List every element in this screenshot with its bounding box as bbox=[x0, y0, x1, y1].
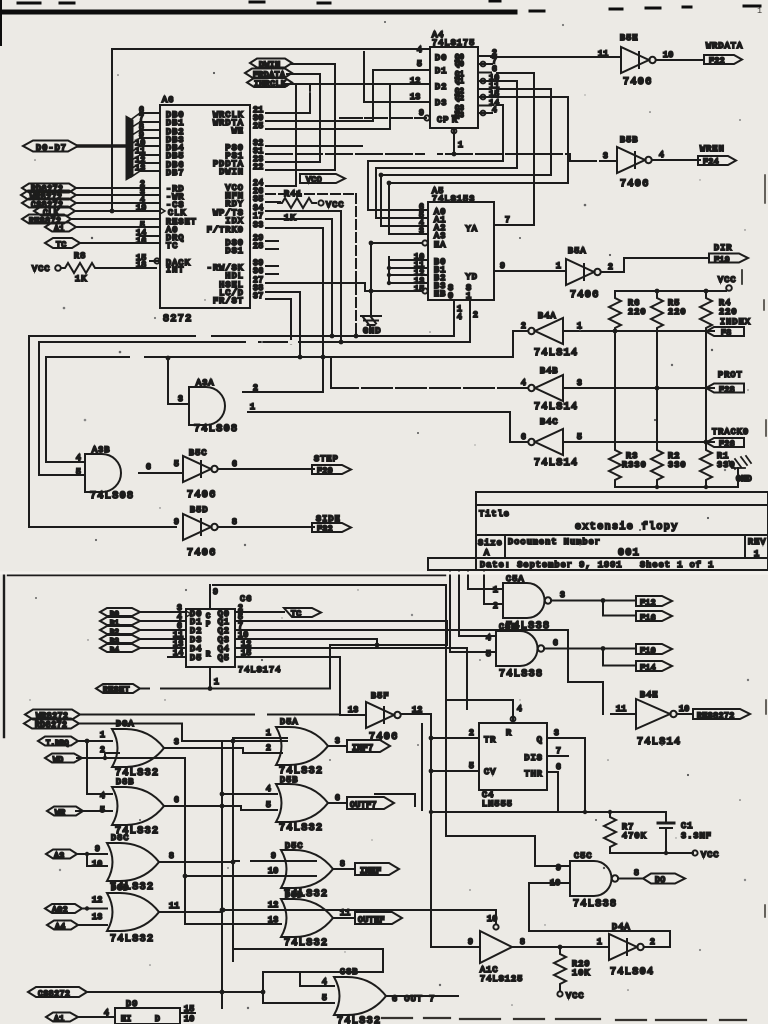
svg-text:VCC: VCC bbox=[566, 991, 585, 1001]
svg-text:Size: Size bbox=[478, 538, 503, 548]
svg-text:3: 3 bbox=[174, 738, 179, 747]
svg-text:B5D: B5D bbox=[190, 505, 209, 515]
VCC rail bottom bbox=[610, 852, 693, 853]
svg-text:10: 10 bbox=[92, 860, 103, 869]
svg-text:EI: EI bbox=[121, 1015, 132, 1024]
svg-text:DB7: DB7 bbox=[166, 168, 185, 178]
AND gate A3B bbox=[85, 445, 134, 502]
OR gate D8C 74LS32 bbox=[107, 833, 159, 893]
OR gate D8B 74LS32 bbox=[112, 777, 164, 837]
wire A1 to D9 bbox=[78, 1016, 115, 1018]
svg-text:9: 9 bbox=[174, 518, 179, 527]
wire C5C out to DO bbox=[618, 878, 643, 880]
svg-text:B4A: B4A bbox=[538, 311, 557, 321]
svg-text:3: 3 bbox=[560, 591, 565, 600]
svg-text:TR: TR bbox=[484, 735, 496, 745]
svg-text:5: 5 bbox=[469, 762, 474, 771]
svg-text:25: 25 bbox=[253, 122, 264, 131]
connector FRDATA bbox=[245, 69, 292, 81]
svg-text:1: 1 bbox=[100, 731, 105, 740]
svg-text:74LS08: 74LS08 bbox=[194, 424, 238, 435]
svg-text:28: 28 bbox=[253, 242, 264, 251]
IC C6 74LS174 bbox=[186, 594, 281, 675]
page2 frame border bbox=[4, 575, 445, 737]
svg-text:1: 1 bbox=[250, 403, 255, 412]
svg-text:9: 9 bbox=[468, 938, 473, 947]
A4 right pin stubs and numbers bbox=[478, 49, 500, 115]
long wires right side of A6 bbox=[266, 186, 358, 392]
svg-text:INEF: INEF bbox=[360, 867, 382, 876]
svg-text:1: 1 bbox=[757, 6, 763, 16]
wire B5E out to F22 bbox=[656, 59, 704, 61]
wire B5B out to F24 bbox=[652, 159, 700, 161]
connector A4 bbox=[47, 921, 78, 933]
svg-text:YA: YA bbox=[466, 224, 478, 234]
svg-text:470K: 470K bbox=[622, 831, 647, 841]
connector A3 bbox=[46, 850, 77, 862]
svg-text:R8: R8 bbox=[74, 251, 86, 261]
svg-text:F12: F12 bbox=[640, 599, 656, 608]
svg-text:A4: A4 bbox=[55, 923, 66, 932]
connector TC.DRQ bbox=[38, 737, 78, 749]
wire DWIN arrow to pin22 bbox=[266, 64, 335, 170]
pullup rail VCC bbox=[615, 290, 726, 292]
svg-text:4: 4 bbox=[492, 106, 497, 115]
svg-text:D: D bbox=[155, 1015, 160, 1024]
svg-text:EA: EA bbox=[434, 240, 446, 250]
svg-text:DIS: DIS bbox=[524, 753, 543, 763]
C6 pin numbers bbox=[173, 604, 252, 658]
svg-text:1: 1 bbox=[597, 938, 602, 947]
wire A4 D3 bbox=[364, 52, 430, 102]
svg-text:001: 001 bbox=[618, 548, 640, 559]
svg-text:D9: D9 bbox=[126, 999, 138, 1009]
connector VCO flag bbox=[300, 174, 345, 185]
svg-text:F14: F14 bbox=[640, 664, 656, 673]
svg-text:3: 3 bbox=[178, 395, 183, 404]
svg-text:74LS32: 74LS32 bbox=[110, 934, 154, 945]
svg-text:22: 22 bbox=[253, 163, 264, 172]
connector A1 bottom bbox=[46, 1013, 78, 1024]
wire D8C out bbox=[159, 861, 233, 863]
svg-text:D8B: D8B bbox=[116, 777, 135, 787]
svg-text:6: 6 bbox=[553, 639, 558, 648]
B4C output wire bbox=[248, 412, 528, 442]
mid verticals page2 bbox=[222, 724, 422, 1008]
wire TR bbox=[431, 737, 479, 739]
page 2 scan edge bottom dashes bbox=[382, 1018, 746, 1020]
svg-text:6: 6 bbox=[146, 463, 151, 472]
resistor R1 330 bbox=[700, 445, 736, 485]
svg-text:RESET: RESET bbox=[103, 686, 130, 695]
svg-text:10: 10 bbox=[268, 867, 279, 876]
svg-text:Q̅2: Q̅2 bbox=[454, 94, 464, 103]
wire B4E out to RES8272 bbox=[677, 713, 693, 715]
svg-text:Document Number: Document Number bbox=[508, 537, 601, 547]
svg-text:16: 16 bbox=[136, 237, 147, 246]
svg-text:A6: A6 bbox=[162, 95, 174, 105]
svg-text:F19: F19 bbox=[714, 256, 730, 265]
svg-text:7406: 7406 bbox=[187, 548, 217, 559]
svg-text:7406: 7406 bbox=[187, 490, 217, 501]
svg-text:4: 4 bbox=[76, 454, 81, 463]
wire A4 CP bbox=[340, 117, 426, 119]
wire CV bbox=[431, 770, 479, 772]
wire D5A.1 feed bbox=[233, 738, 287, 961]
wire B5D out to F32 bbox=[218, 526, 314, 528]
A5 bottom pins bbox=[454, 300, 478, 342]
svg-text:F16: F16 bbox=[640, 614, 656, 623]
svg-text:5: 5 bbox=[100, 806, 105, 815]
wire into B4E bbox=[611, 713, 636, 715]
VCC node right bbox=[718, 270, 742, 291]
svg-text:2: 2 bbox=[469, 729, 474, 738]
connector F14 bbox=[636, 661, 672, 673]
svg-text:2: 2 bbox=[608, 263, 613, 272]
svg-text:D8A: D8A bbox=[116, 719, 135, 729]
wire D5C.9 feed bbox=[185, 861, 316, 876]
svg-text:4: 4 bbox=[457, 313, 462, 322]
svg-text:DS1: DS1 bbox=[225, 246, 244, 256]
wire FRDATA to PDDTA bbox=[266, 74, 320, 162]
svg-text:330: 330 bbox=[668, 460, 687, 470]
svg-text:T.DRQ: T.DRQ bbox=[46, 740, 69, 748]
svg-text:VCC: VCC bbox=[326, 200, 345, 210]
B4B input wire PROT line bbox=[563, 387, 714, 389]
svg-text:1: 1 bbox=[493, 586, 498, 595]
wire DRQ bbox=[140, 235, 160, 237]
svg-text:WREN: WREN bbox=[700, 144, 725, 154]
wire THR bbox=[547, 772, 558, 812]
svg-text:9: 9 bbox=[500, 262, 505, 271]
connector F22 WRDATA bbox=[704, 41, 743, 66]
fax dropout patches bbox=[96, 151, 437, 863]
pin numbers left of A6 bbox=[135, 106, 147, 270]
svg-text:F20: F20 bbox=[317, 467, 333, 476]
IC A5 74LS153 bbox=[422, 186, 494, 301]
nested wires left bundle bbox=[368, 161, 568, 234]
OR gate D5C 74LS32 bbox=[281, 841, 333, 900]
C5A input risers bbox=[468, 570, 503, 604]
DACK bubble bbox=[154, 258, 159, 263]
OR gate D8A 74LS32 bbox=[112, 719, 164, 779]
svg-text:15: 15 bbox=[184, 1005, 195, 1014]
buffer A1C 74LS125 bbox=[480, 910, 523, 984]
svg-text:13: 13 bbox=[348, 706, 359, 715]
svg-text:Title: Title bbox=[479, 509, 510, 519]
capacitor C1 3.3MF bbox=[658, 812, 712, 853]
svg-text:3: 3 bbox=[419, 227, 424, 236]
svg-text:F32: F32 bbox=[317, 525, 333, 534]
svg-text:7: 7 bbox=[505, 216, 510, 225]
svg-text:D8D: D8D bbox=[111, 883, 130, 893]
B4C input wire TRACK0 line bbox=[563, 441, 714, 443]
C6 input connectors D0-D4 bbox=[100, 608, 140, 655]
svg-text:R41: R41 bbox=[284, 189, 303, 199]
NAND C5C 74LS38 bbox=[570, 851, 618, 910]
page gap light band bbox=[0, 572, 768, 575]
svg-text:D8C: D8C bbox=[111, 833, 130, 843]
svg-text:TC: TC bbox=[56, 241, 67, 250]
svg-text:13: 13 bbox=[410, 93, 421, 102]
connector WD bbox=[45, 754, 82, 766]
connector IHRCLK bbox=[247, 78, 292, 89]
C6 clock pin 9 bbox=[210, 585, 446, 836]
svg-text:1: 1 bbox=[214, 678, 219, 687]
svg-text:Sheet 1 of 1: Sheet 1 of 1 bbox=[640, 560, 714, 570]
svg-text:10K: 10K bbox=[572, 968, 591, 978]
AND gate A3A mirrored bbox=[189, 378, 238, 435]
wire A1C enable from 910 bbox=[223, 909, 496, 911]
svg-text:GND: GND bbox=[736, 475, 752, 484]
connector OUTEF bbox=[355, 912, 402, 925]
connector CLK bbox=[34, 207, 75, 219]
wire D5D.12 feed bbox=[185, 910, 281, 924]
C6 Q wires right bbox=[235, 621, 603, 715]
inverter B5E 7406 bbox=[620, 33, 656, 88]
svg-text:VCC: VCC bbox=[701, 850, 720, 860]
ground symbol right bbox=[729, 456, 752, 487]
svg-text:RES8272: RES8272 bbox=[697, 712, 735, 721]
wire bbox=[76, 187, 160, 189]
svg-text:6: 6 bbox=[556, 763, 561, 772]
svg-text:WE: WE bbox=[232, 126, 244, 136]
svg-text:B4B: B4B bbox=[540, 366, 559, 376]
svg-text:Date: September 9, 1991: Date: September 9, 1991 bbox=[480, 560, 623, 570]
svg-text:74LS125: 74LS125 bbox=[480, 974, 523, 984]
svg-text:74LS04: 74LS04 bbox=[610, 967, 654, 978]
svg-text:8: 8 bbox=[340, 860, 345, 869]
connector INEF bbox=[355, 863, 399, 876]
svg-text:1: 1 bbox=[754, 549, 760, 559]
inverter D4A 74LS04 bbox=[609, 922, 654, 978]
IC C4 LM555 bbox=[479, 723, 547, 809]
wire A4 Q0 to B5E bbox=[491, 56, 621, 58]
svg-text:PROT: PROT bbox=[718, 370, 743, 380]
svg-text:74LS14: 74LS14 bbox=[534, 402, 578, 413]
connector D0-D7 bbox=[23, 141, 78, 154]
wire A4 to D8D.13 bbox=[78, 924, 107, 926]
bottom rail 555 bbox=[431, 811, 666, 813]
connector INF7 bbox=[347, 740, 390, 753]
svg-text:2: 2 bbox=[473, 311, 478, 320]
OR gate D5D 74LS32 bbox=[281, 890, 333, 949]
svg-text:VCO: VCO bbox=[306, 176, 322, 185]
svg-text:35: 35 bbox=[253, 195, 264, 204]
svg-text:EB: EB bbox=[434, 289, 446, 299]
svg-text:A1: A1 bbox=[54, 225, 65, 234]
A3B out to B5C bbox=[139, 469, 183, 473]
svg-text:12: 12 bbox=[410, 77, 421, 86]
wire YD to B5A bbox=[494, 270, 566, 272]
A5 B0-B3 input fan bbox=[387, 257, 428, 285]
svg-text:1: 1 bbox=[556, 262, 561, 271]
svg-text:5: 5 bbox=[417, 60, 422, 69]
svg-text:1: 1 bbox=[458, 141, 463, 150]
resistor R6 220 bbox=[609, 293, 647, 333]
svg-text:Q5: Q5 bbox=[218, 653, 230, 663]
svg-text:5: 5 bbox=[174, 460, 179, 469]
title block bbox=[428, 492, 768, 570]
connector RD8272 bbox=[24, 719, 79, 731]
A4 left pin numbers bbox=[410, 46, 424, 118]
svg-text:DIR: DIR bbox=[714, 243, 733, 253]
svg-text:8272: 8272 bbox=[163, 314, 193, 325]
wire C5B out to F10/F14 bbox=[544, 649, 636, 666]
svg-text:C6: C6 bbox=[240, 594, 252, 604]
svg-text:REV: REV bbox=[748, 537, 767, 547]
svg-text:CS8272: CS8272 bbox=[38, 990, 70, 999]
svg-text:9: 9 bbox=[213, 588, 218, 597]
svg-text:74LS32: 74LS32 bbox=[337, 1016, 381, 1024]
wire A4 pin1 rail bbox=[452, 152, 457, 157]
wire into A1C bbox=[431, 946, 480, 948]
wire EA to gnd rail bbox=[371, 242, 422, 244]
wire D5B out to OUTF7 bbox=[328, 802, 347, 804]
svg-text:Q̅3: Q̅3 bbox=[454, 111, 464, 120]
wire D5D out to OUTEF bbox=[333, 917, 355, 919]
wire R8 to DACK/INT bbox=[99, 261, 160, 268]
svg-text:A1: A1 bbox=[54, 1015, 65, 1024]
svg-text:1K: 1K bbox=[75, 274, 87, 284]
svg-text:LM555: LM555 bbox=[482, 799, 513, 809]
connector RD8272 bbox=[22, 184, 76, 195]
connector RES8272 bbox=[22, 215, 71, 227]
svg-text:11: 11 bbox=[598, 50, 609, 59]
svg-text:4: 4 bbox=[100, 792, 105, 801]
wire D4A out bbox=[644, 946, 670, 948]
svg-text:THR: THR bbox=[524, 769, 543, 779]
svg-text:D1: D1 bbox=[435, 66, 447, 76]
svg-text:5: 5 bbox=[266, 801, 271, 810]
svg-text:74LS153: 74LS153 bbox=[432, 194, 475, 204]
wire YA pin7 loop bbox=[494, 224, 534, 226]
inverter B4A 74LS14 bbox=[528, 311, 578, 359]
NAND C5A 74LS38 bbox=[503, 574, 551, 632]
svg-text:F28: F28 bbox=[719, 386, 735, 395]
svg-text:11: 11 bbox=[616, 705, 627, 714]
svg-text:3.3MF: 3.3MF bbox=[681, 831, 712, 841]
svg-text:9: 9 bbox=[95, 845, 100, 854]
ground symbol bbox=[361, 316, 382, 336]
svg-text:7406: 7406 bbox=[570, 290, 600, 301]
svg-text:10: 10 bbox=[679, 705, 690, 714]
IC A4 74LS175 bbox=[424, 30, 478, 128]
bus taps bbox=[129, 113, 140, 177]
connector F12 bbox=[636, 596, 672, 608]
svg-text:2: 2 bbox=[266, 744, 271, 753]
OR gate D5A 74LS32 bbox=[276, 717, 328, 777]
wire DIS stub bbox=[547, 755, 568, 757]
wire CS8272 bbox=[87, 972, 334, 1003]
svg-text:10: 10 bbox=[663, 51, 674, 60]
C6 pin1 reset bbox=[210, 667, 219, 688]
svg-text:5: 5 bbox=[577, 433, 582, 442]
connector F24 WREN bbox=[698, 144, 736, 167]
svg-text:74LS32: 74LS32 bbox=[279, 823, 323, 834]
connector F20 STEP bbox=[312, 454, 351, 476]
svg-text:220: 220 bbox=[628, 307, 647, 317]
svg-text:4: 4 bbox=[521, 379, 526, 388]
svg-text:3: 3 bbox=[335, 737, 340, 746]
svg-text:10: 10 bbox=[184, 1015, 195, 1024]
svg-text:R330: R330 bbox=[622, 460, 647, 470]
svg-text:TRACK0: TRACK0 bbox=[712, 427, 749, 437]
wire WRCLK arrow to pin21 bbox=[266, 84, 310, 113]
svg-text:12: 12 bbox=[268, 901, 279, 910]
svg-text:F24: F24 bbox=[703, 158, 719, 167]
svg-text:C8B: C8B bbox=[340, 967, 359, 977]
svg-text:4: 4 bbox=[659, 151, 664, 160]
pin stubs left A6 bbox=[140, 113, 160, 171]
connector F19 DIR bbox=[709, 243, 748, 265]
svg-text:FR/ST: FR/ST bbox=[213, 296, 244, 306]
svg-text:A: A bbox=[484, 548, 490, 558]
svg-text:TC: TC bbox=[291, 610, 302, 619]
svg-text:VCC: VCC bbox=[32, 264, 51, 274]
connector F8 INDEX bbox=[706, 317, 751, 338]
data bus bar bbox=[126, 116, 133, 180]
OR gate D8D 74LS32 bbox=[107, 883, 159, 945]
resistor R3 330 bbox=[609, 445, 647, 485]
svg-text:2: 2 bbox=[521, 322, 526, 331]
inverter B5C 7406 bbox=[183, 448, 218, 501]
svg-text:C5C: C5C bbox=[574, 851, 593, 861]
svg-text:7406: 7406 bbox=[623, 77, 653, 88]
svg-text:4: 4 bbox=[104, 1009, 109, 1018]
svg-text:RD8272: RD8272 bbox=[35, 721, 67, 730]
C5B input risers bbox=[450, 570, 496, 652]
wire RD8272 bbox=[79, 724, 287, 742]
svg-text:WD: WD bbox=[53, 756, 64, 765]
svg-text:8: 8 bbox=[634, 869, 639, 878]
A3A input wires bbox=[243, 391, 323, 393]
svg-text:6 OUT 7: 6 OUT 7 bbox=[392, 994, 435, 1004]
svg-text:D0: D0 bbox=[435, 53, 447, 63]
wire B5F out bbox=[401, 714, 431, 947]
svg-text:8: 8 bbox=[169, 852, 174, 861]
svg-text:33: 33 bbox=[253, 221, 264, 230]
wire WD to D8A.2 bbox=[77, 753, 185, 924]
svg-text:10: 10 bbox=[487, 915, 498, 924]
svg-text:STEP: STEP bbox=[314, 454, 339, 464]
svg-text:CV: CV bbox=[484, 767, 496, 777]
svg-text:9: 9 bbox=[419, 109, 424, 118]
svg-text:C: C bbox=[206, 613, 211, 621]
svg-text:D3: D3 bbox=[435, 98, 447, 108]
wire bbox=[76, 202, 160, 204]
svg-text:7: 7 bbox=[556, 747, 561, 756]
svg-text:DWIN: DWIN bbox=[219, 167, 244, 177]
svg-text:CP: CP bbox=[437, 115, 449, 125]
wire into B5B pin3 bbox=[266, 154, 617, 161]
C6 input wires bbox=[140, 612, 186, 657]
svg-text:D5A: D5A bbox=[280, 717, 299, 727]
svg-text:WR8272: WR8272 bbox=[36, 712, 68, 721]
svg-text:3: 3 bbox=[554, 729, 559, 738]
C5C input wires bbox=[446, 836, 670, 947]
svg-text:B5B: B5B bbox=[620, 135, 639, 145]
svg-text:3: 3 bbox=[603, 152, 608, 161]
svg-text:6: 6 bbox=[521, 433, 526, 442]
wire WR to D8B.5 bbox=[76, 810, 112, 812]
wire bus to chip bbox=[78, 144, 128, 148]
inverter B4B 74LS14 bbox=[528, 366, 578, 413]
svg-text:WRDATA: WRDATA bbox=[706, 41, 743, 51]
svg-text:74LS14: 74LS14 bbox=[534, 458, 578, 469]
B4A output wire bbox=[513, 331, 528, 357]
svg-text:1K: 1K bbox=[284, 213, 296, 223]
